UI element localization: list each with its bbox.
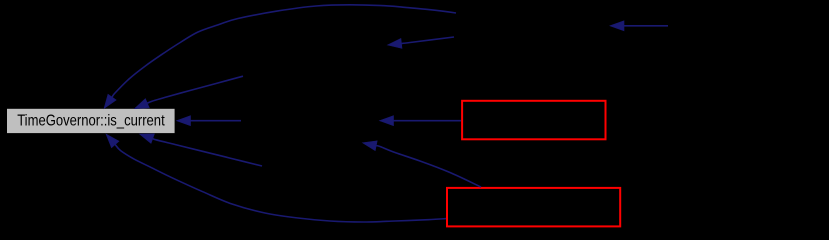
svg-text:TimeGovernor::is_current: TimeGovernor::is_current (17, 112, 165, 129)
